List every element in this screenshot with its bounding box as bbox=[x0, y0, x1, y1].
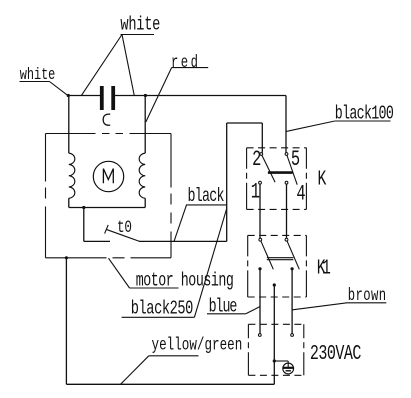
svg-text:2: 2 bbox=[252, 146, 261, 171]
svg-text:red: red bbox=[171, 52, 198, 73]
svg-text:K: K bbox=[318, 168, 327, 191]
svg-text:blue: blue bbox=[209, 295, 238, 317]
svg-text:motor housing: motor housing bbox=[136, 269, 234, 291]
svg-text:black: black bbox=[188, 185, 225, 207]
svg-text:230VAC: 230VAC bbox=[310, 341, 362, 365]
svg-text:K1: K1 bbox=[317, 257, 331, 280]
svg-text:yellow/green: yellow/green bbox=[152, 334, 243, 355]
svg-text:black250: black250 bbox=[131, 298, 194, 320]
svg-text:5: 5 bbox=[291, 146, 300, 171]
svg-text:t0: t0 bbox=[117, 217, 132, 238]
svg-text:4: 4 bbox=[296, 181, 305, 206]
svg-text:white: white bbox=[20, 66, 55, 85]
svg-text:1: 1 bbox=[251, 179, 260, 204]
svg-text:brown: brown bbox=[348, 285, 386, 306]
svg-text:white: white bbox=[120, 14, 160, 36]
svg-text:black100: black100 bbox=[335, 102, 394, 124]
